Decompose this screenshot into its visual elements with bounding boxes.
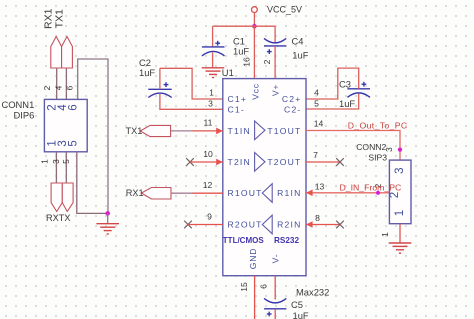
ground (CONN1)	[96, 224, 119, 234]
pin 10 stub with input arrow	[190, 161, 223, 163]
wire TX1 to U1 pin 11	[171, 130, 193, 132]
wire C2 bottom to U1 pin 3	[160, 94, 223, 109]
buffer triangle T2	[255, 153, 265, 172]
svg-text:10: 10	[203, 149, 213, 159]
svg-text:Vcc: Vcc	[250, 83, 260, 100]
svg-text:5: 5	[61, 159, 71, 164]
wire CONN1 pin 5 to ground junction	[77, 152, 108, 214]
svg-text:1uF: 1uF	[292, 50, 308, 61]
svg-text:3: 3	[394, 167, 406, 173]
capacitor C2	[148, 82, 171, 97]
svg-text:5: 5	[314, 99, 319, 109]
wire U1 pin 14 to CONN2 pin 3 (net D_Out_To_PC)	[306, 131, 400, 161]
capacitor C4	[264, 38, 286, 54]
junction VCC rail	[252, 24, 257, 29]
wire port TX1 to CONN1 pin 4	[65, 68, 67, 99]
svg-text:2: 2	[262, 59, 272, 64]
svg-text:R2IN: R2IN	[277, 220, 301, 230]
svg-text:3: 3	[208, 99, 213, 109]
svg-text:V+: V+	[271, 84, 281, 96]
wire CONN1 pin 1 down	[55, 152, 57, 183]
svg-text:GND: GND	[248, 248, 258, 270]
connector CONN1 body	[44, 99, 87, 151]
svg-text:C1-: C1-	[228, 105, 245, 115]
svg-text:7: 7	[313, 150, 318, 160]
svg-text:T2OUT: T2OUT	[267, 157, 301, 167]
wire junction to U1 pin 16	[253, 26, 255, 78]
wire VCC rail horizontal	[213, 25, 276, 27]
wire CONN2 pin 1 to ground	[399, 224, 401, 243]
svg-text:TX1: TX1	[126, 126, 143, 136]
svg-text:11: 11	[204, 118, 213, 128]
svg-text:1uF: 1uF	[139, 67, 155, 78]
svg-text:T2IN: T2IN	[228, 157, 251, 167]
svg-text:1: 1	[40, 159, 50, 164]
wire C5 bottom down	[274, 309, 276, 319]
svg-text:1uF: 1uF	[339, 98, 355, 109]
svg-text:1uF: 1uF	[233, 46, 249, 57]
svg-text:4: 4	[314, 88, 319, 98]
svg-text:RXTX: RXTX	[46, 213, 71, 223]
svg-text:D_IN_From_PC: D_IN_From_PC	[340, 182, 402, 192]
port RX1 (left, pointing left)	[142, 188, 172, 200]
wire C1 to ground	[212, 53, 214, 68]
svg-text:R1IN: R1IN	[277, 188, 301, 198]
svg-text:VCC_5V: VCC_5V	[267, 5, 302, 15]
port TX1 (left, pointing left)	[140, 125, 170, 136]
junction CONN2 pin 2	[376, 191, 380, 195]
svg-text:5: 5	[68, 140, 80, 146]
svg-text:RX1: RX1	[42, 8, 54, 29]
IC U1 Max232 body	[223, 79, 306, 276]
svg-text:12: 12	[203, 180, 213, 190]
wire CONN1 pin 6 loop to ground junction	[78, 59, 108, 213]
svg-text:2: 2	[42, 85, 52, 90]
svg-text:T1OUT: T1OUT	[267, 126, 301, 136]
svg-text:Max232: Max232	[296, 286, 329, 297]
svg-text:1: 1	[380, 232, 390, 237]
power port VCC_5V	[252, 7, 258, 13]
svg-text:13: 13	[315, 182, 325, 192]
svg-text:DIP6: DIP6	[13, 110, 34, 121]
capacitor C5	[264, 298, 286, 316]
svg-text:15: 15	[239, 282, 249, 292]
pin 12 stub	[193, 192, 223, 194]
svg-text:U1: U1	[222, 67, 234, 78]
pin 8 stub with input arrow	[306, 224, 340, 226]
wire C4 to U1 pin 2	[274, 46, 276, 79]
svg-text:V-: V-	[270, 254, 280, 264]
svg-text:C3: C3	[339, 78, 351, 89]
wire RX1 to U1 pin 12	[171, 192, 193, 194]
wire VCC stem	[253, 13, 255, 27]
svg-text:4: 4	[53, 85, 63, 90]
svg-text:C1+: C1+	[228, 94, 248, 104]
port RXTX right (down-pointing)	[62, 183, 73, 212]
svg-text:R1OUT: R1OUT	[228, 188, 263, 198]
wire U1 pin 13 to CONN2 pin 2 (net D_IN_From_PC) with input arrow	[306, 192, 389, 194]
wire rail down to C1	[212, 26, 214, 47]
wire CONN1 pin 3 down	[65, 152, 67, 183]
svg-text:1uF: 1uF	[293, 310, 309, 319]
junction CONN2 pin 3	[398, 148, 402, 152]
no connect X pin 9	[184, 221, 192, 229]
svg-text:1: 1	[209, 88, 214, 98]
svg-text:TX1: TX1	[54, 9, 66, 28]
no connect X pin 8	[336, 221, 344, 229]
port TX1 (top, up-pointing)	[62, 37, 73, 69]
pin 7 stub	[306, 161, 340, 163]
wire U1 pin 6 (V-) to C5	[274, 276, 276, 300]
buffer triangle R1	[262, 184, 272, 203]
port RXTX left (down-pointing)	[51, 183, 62, 212]
svg-text:6: 6	[68, 104, 80, 110]
wire C2 top to U1 pin 1	[159, 68, 161, 89]
svg-text:C4: C4	[292, 36, 304, 47]
svg-text:9: 9	[207, 212, 212, 222]
svg-text:8: 8	[315, 213, 320, 223]
svg-text:R2OUT: R2OUT	[228, 220, 263, 230]
wire rail down to C4	[274, 26, 276, 43]
junction ground node	[105, 211, 110, 216]
svg-text:C2+: C2+	[282, 94, 302, 104]
capacitor C1	[202, 41, 225, 56]
svg-text:SIP3: SIP3	[368, 153, 387, 163]
svg-text:D_Out_To_PC: D_Out_To_PC	[348, 121, 408, 131]
ground (CONN2)	[389, 243, 412, 253]
wire port RX1 to CONN1 pin 2	[56, 68, 58, 99]
svg-text:3: 3	[51, 159, 61, 164]
svg-text:TTL/CMOS: TTL/CMOS	[223, 236, 265, 245]
svg-text:RX1: RX1	[126, 188, 144, 198]
svg-text:CONN2: CONN2	[356, 142, 386, 152]
svg-text:C5: C5	[291, 299, 303, 310]
buffer triangle R2	[262, 215, 272, 234]
svg-text:RS232: RS232	[274, 236, 299, 245]
svg-text:2: 2	[389, 192, 401, 198]
wire U1 pin 4 to C3 top	[306, 68, 359, 99]
svg-text:C2-: C2-	[284, 105, 301, 115]
buffer triangle T1	[255, 121, 265, 140]
svg-text:T1IN: T1IN	[228, 126, 251, 136]
connector CONN2 body	[389, 160, 411, 224]
no connect X pin 10	[186, 158, 194, 166]
svg-text:14: 14	[314, 119, 324, 129]
svg-text:6: 6	[259, 284, 269, 289]
pin 11 stub with input arrow	[193, 130, 223, 132]
port RX1 (top, up-pointing)	[51, 37, 62, 69]
ground (C1)	[202, 68, 225, 78]
svg-text:6: 6	[64, 85, 74, 90]
svg-text:16: 16	[242, 57, 252, 67]
svg-text:1: 1	[394, 210, 406, 216]
no connect X pin 7	[336, 158, 344, 166]
wire junction to ground	[107, 213, 109, 223]
svg-text:CONN1: CONN1	[1, 99, 34, 110]
wire U1 pin 15 (GND) down	[254, 276, 256, 319]
wire C3 bottom to U1 pin 5	[306, 94, 359, 109]
capacitor C3	[347, 82, 370, 98]
pin 9 stub	[188, 224, 223, 226]
